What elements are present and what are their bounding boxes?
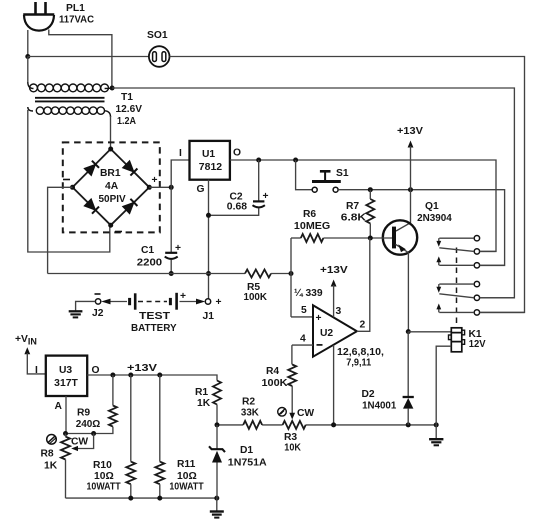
diode BR1 bottom-left [84, 199, 99, 214]
wire +13V arrow to Q1 collector [396, 141, 413, 232]
relay contact set 2 circles [474, 281, 479, 315]
screw symbol R3 [278, 408, 287, 417]
svg-text:+VIN: +VIN [15, 334, 37, 347]
node R10 top [128, 373, 133, 378]
svg-text:2: 2 [360, 320, 366, 331]
svg-text:C1: C1 [141, 245, 154, 256]
svg-text:T1: T1 [121, 92, 133, 103]
transistor Q1 [370, 220, 417, 254]
relay contact set 2 wires and arm [436, 284, 524, 312]
svg-text:2N3904: 2N3904 [417, 213, 452, 224]
wire U1 ground pin down to J1 [208, 180, 210, 299]
wire R5 right [271, 273, 291, 275]
node Q1 base / R7 / U2 out [368, 236, 373, 241]
node S1/R7 [368, 187, 373, 192]
svg-text:O: O [233, 148, 241, 159]
resistor R7 [366, 190, 374, 238]
transformer T1 secondary [28, 107, 111, 117]
node bridge left vertex [70, 185, 75, 190]
svg-text:R8: R8 [41, 449, 54, 460]
svg-text:A: A [55, 401, 63, 412]
svg-text:+: + [152, 175, 158, 186]
svg-text:R3: R3 [284, 432, 297, 443]
dashed actuator link K1 [456, 248, 458, 328]
wire U3 adjust pin down [65, 396, 67, 434]
svg-text:10Ω: 10Ω [177, 471, 197, 482]
wire SO1 rail left [28, 56, 149, 58]
wire U2 ground pin to rail [333, 345, 335, 425]
svg-text:J2: J2 [92, 308, 104, 319]
svg-text:5: 5 [301, 305, 307, 316]
socket SO1 [149, 46, 170, 67]
node junction T1 primary right / rail B [110, 86, 115, 91]
node C1 top junction [169, 185, 174, 190]
jack J2 [95, 299, 100, 304]
node bridge top vertex [108, 147, 113, 152]
svg-text:2200: 2200 [137, 258, 163, 269]
ground at J2 [69, 311, 83, 317]
svg-text:7812: 7812 [199, 162, 223, 173]
svg-text:1N751A: 1N751A [228, 458, 267, 469]
bridge rectifier BR1 dashed box [63, 142, 160, 232]
wire bridge minus to ground rail [48, 187, 73, 273]
resistor R10 [126, 375, 135, 498]
svg-text:0.68: 0.68 [227, 202, 247, 213]
wire secondary left lead to bridge bottom vertex [28, 110, 110, 252]
op-amp U2 [313, 305, 357, 356]
svg-text:U3: U3 [59, 365, 72, 376]
node R5/R6/pin5 junction [289, 271, 294, 276]
battery cell 2 [170, 293, 176, 310]
resistor R4 [288, 345, 296, 419]
wire K1 coil feed [408, 331, 451, 333]
transformer T1 primary [28, 57, 112, 92]
node G line on ground rail [206, 271, 211, 276]
svg-text:CW: CW [71, 437, 88, 448]
diode BR1 top-left [84, 161, 99, 176]
svg-text:R10: R10 [93, 460, 112, 471]
wire U3 output rail to R1 [87, 375, 217, 381]
svg-text:+: + [175, 243, 181, 254]
svg-text:1K: 1K [197, 398, 211, 409]
svg-text:U2: U2 [320, 328, 333, 339]
svg-text:¼ 339: ¼ 339 [294, 288, 323, 299]
wire ground rail with R5 [48, 273, 245, 275]
svg-text:D1: D1 [240, 445, 253, 456]
capacitor C1 [165, 187, 178, 273]
svg-text:J1: J1 [203, 311, 215, 322]
node bridge right vertex [147, 185, 152, 190]
svg-text:CW: CW [297, 408, 314, 419]
svg-text:50PIV: 50PIV [99, 194, 126, 205]
svg-text:I: I [179, 148, 182, 159]
IC U1 7812 box [190, 141, 230, 180]
wire pin 5 [291, 316, 313, 318]
wire pin 3 +13V arrow [331, 280, 337, 318]
zener diode D1 [209, 425, 225, 498]
wire S1 to relay contact 3 [338, 190, 504, 266]
resistor R11 [155, 375, 164, 498]
svg-text:33K: 33K [241, 408, 260, 419]
wire secondary right lead to bridge top vertex [110, 116, 112, 149]
node D1 bottom / ground [214, 496, 219, 501]
svg-text:I: I [35, 365, 38, 376]
resistor R5 [245, 270, 271, 278]
wire U1 input [171, 160, 189, 187]
node rail/D2 [406, 422, 411, 427]
relay contact set 1 wires and arm [436, 238, 504, 265]
diode BR1 top-right [123, 161, 138, 176]
svg-text:10WATT: 10WATT [87, 482, 122, 493]
svg-text:+: + [180, 291, 186, 302]
svg-text:D2: D2 [362, 389, 375, 400]
svg-text:240Ω: 240Ω [76, 419, 101, 430]
svg-text:10MEG: 10MEG [294, 221, 330, 232]
svg-text:4A: 4A [105, 181, 119, 192]
node C1 on ground rail [169, 271, 174, 276]
svg-text:6.8K: 6.8K [341, 213, 367, 224]
svg-text:BR1: BR1 [100, 168, 121, 179]
transformer T1 core [35, 98, 105, 102]
node A/R9 junction [63, 431, 68, 436]
IC U3 317T box [46, 356, 87, 396]
svg-text:+13V: +13V [320, 265, 348, 276]
node G/C2 junction [206, 213, 211, 218]
resistor R9 [66, 375, 117, 434]
node R11 bottom [157, 496, 162, 501]
relay coil K1 [449, 328, 465, 352]
switch S1 [296, 160, 341, 192]
svg-text:R1: R1 [195, 387, 208, 398]
resistor R1 [213, 381, 221, 425]
wire bottom rail R2/R3 [217, 424, 436, 426]
svg-text:10K: 10K [284, 443, 301, 454]
svg-text:R9: R9 [77, 408, 90, 419]
svg-text:+: + [263, 191, 269, 202]
svg-text:100K: 100K [244, 292, 268, 303]
bridge rectifier BR1 diamond [73, 149, 150, 225]
node R9 top [110, 373, 115, 378]
wire U2 output pin 2 up to base node [357, 238, 370, 331]
svg-text:S1: S1 [336, 168, 349, 179]
test battery arrow left [101, 299, 127, 305]
node rail/ground [434, 422, 439, 427]
ground near K1 [429, 425, 443, 445]
resistor R6 [291, 234, 370, 242]
svg-text:TEST: TEST [139, 311, 171, 322]
svg-text:Q1: Q1 [425, 201, 439, 212]
svg-text:1.2A: 1.2A [117, 116, 136, 127]
svg-text:100K: 100K [262, 378, 289, 389]
svg-text:12V: 12V [469, 339, 486, 350]
node rail/U2 gnd [331, 422, 336, 427]
node R1/R2/D1 junction [215, 422, 220, 427]
potentiometer R8 [61, 434, 94, 499]
wire plug right lead [49, 30, 112, 89]
node R11 top [157, 373, 162, 378]
wire bridge plus to C1 junction [149, 186, 171, 188]
diode BR1 bottom-right [123, 199, 138, 214]
wire SO1 rail right to relay contact 6 [170, 57, 525, 313]
svg-text:10WATT: 10WATT [169, 482, 204, 493]
test battery arrow right [180, 299, 206, 305]
ground bottom center [210, 498, 224, 517]
svg-text:R4: R4 [266, 366, 279, 377]
node bridge bottom vertex [108, 223, 113, 228]
svg-text:SO1: SO1 [147, 30, 168, 41]
node C2 top [256, 158, 261, 163]
label U2 minus input [317, 344, 323, 346]
svg-text:1N4001: 1N4001 [362, 401, 396, 412]
node emitter/D2/K1 junction [406, 329, 411, 334]
svg-text:12.6V: 12.6V [116, 104, 143, 115]
plug PL1 [23, 2, 54, 31]
svg-text:U1: U1 [202, 149, 215, 160]
node S1 branch [293, 158, 298, 163]
diode D2 [403, 332, 414, 425]
battery cell 1 [130, 293, 136, 309]
wire +VIN arrow to U3 input [24, 347, 45, 374]
jack J1 [205, 299, 210, 304]
node junction plug/SO1 rail [25, 54, 30, 59]
wire R6/pin5 branch [290, 238, 292, 317]
label minus bottom vertex [115, 231, 122, 233]
wire U1 output rail to relay contact 2 [230, 160, 496, 251]
wire Q1 emitter down [407, 253, 409, 332]
svg-text:+: + [216, 297, 222, 308]
svg-text:1K: 1K [44, 461, 58, 472]
label J2 minus [95, 293, 101, 295]
wire bottom ground rail [66, 497, 217, 499]
svg-text:+13V: +13V [397, 126, 423, 137]
wire plug left lead down [27, 30, 29, 57]
svg-text:R7: R7 [346, 201, 359, 212]
wire rail B to relay contact 5 [112, 88, 514, 298]
wire J2 to ground [76, 301, 96, 310]
svg-text:BATTERY: BATTERY [131, 323, 177, 334]
svg-text:317T: 317T [54, 378, 78, 389]
wire pin 4 [292, 344, 313, 346]
svg-text:R6: R6 [303, 209, 316, 220]
resistor R2 [243, 421, 262, 429]
node S1/+13V line [408, 187, 413, 192]
wire K1 coil return to ground [436, 346, 451, 425]
relay contact set 1 circles [474, 236, 479, 268]
svg-text:+13V: +13V [127, 363, 157, 374]
svg-text:117VAC: 117VAC [59, 15, 95, 26]
screw symbol R8 [47, 435, 57, 445]
node wiper junction [91, 431, 96, 436]
svg-text:G: G [197, 184, 205, 195]
potentiometer R3 [283, 421, 306, 429]
svg-text:R2: R2 [242, 397, 255, 408]
svg-text:R11: R11 [177, 459, 196, 470]
capacitor C2 [209, 160, 265, 215]
wire battery dashed [138, 301, 167, 303]
node R10 bottom [128, 496, 133, 501]
svg-text:7,9,11: 7,9,11 [346, 358, 371, 369]
svg-text:10Ω: 10Ω [94, 471, 114, 482]
label minus left vertex [63, 179, 70, 181]
svg-text:3: 3 [336, 306, 342, 317]
svg-text:+: + [316, 313, 322, 324]
svg-text:4: 4 [300, 334, 306, 345]
svg-text:12,6,8,10,: 12,6,8,10, [337, 347, 384, 358]
svg-text:PL1: PL1 [66, 3, 85, 14]
